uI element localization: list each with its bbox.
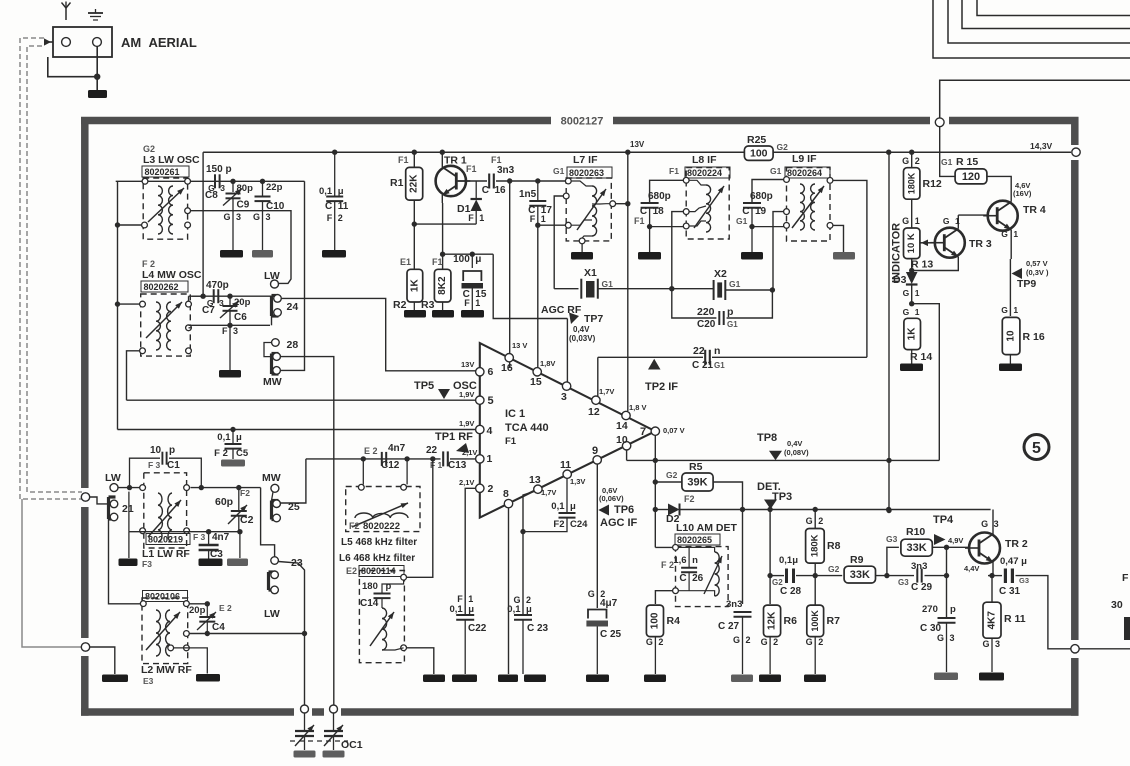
pin L5 right	[401, 484, 407, 490]
capacitor C24 0.1u	[523, 513, 576, 532]
ground bar below aerial	[88, 90, 107, 98]
capacitor C12 4n7 series	[382, 452, 386, 466]
resistor R14 1K	[904, 318, 921, 349]
wire AGC RF drop to pin3	[566, 319, 568, 383]
svg-text:n: n	[692, 555, 698, 566]
label 8020222	[349, 521, 400, 532]
wire pin7 drop	[653, 435, 658, 547]
svg-text:680p: 680p	[750, 191, 773, 202]
label R15	[941, 156, 978, 168]
label G3 C9col	[223, 212, 241, 222]
switch 21 contact b	[110, 513, 118, 521]
svg-text:TR 4: TR 4	[1023, 204, 1046, 216]
pin L3 mid-right	[185, 208, 191, 214]
svg-text:1: 1	[915, 288, 920, 298]
border feedthrough pin top	[935, 118, 944, 127]
wire R8 top	[814, 510, 816, 529]
capacitor C18	[641, 203, 659, 208]
switch MW bracket	[272, 354, 279, 375]
wire L8 mid drop	[672, 212, 684, 289]
border frame top	[81, 117, 1079, 125]
wire R16 gnd	[1009, 355, 1011, 364]
pin L6 bot-right	[401, 645, 407, 651]
svg-text:F: F	[530, 214, 536, 224]
svg-text:C14: C14	[360, 598, 379, 609]
svg-text:G3: G3	[898, 578, 909, 587]
svg-text:C 28: C 28	[780, 586, 802, 597]
svg-text:1: 1	[1013, 229, 1018, 239]
svg-text:C9: C9	[237, 200, 250, 211]
svg-text:R6: R6	[784, 615, 798, 627]
label C13	[426, 445, 467, 471]
svg-text:F2: F2	[553, 519, 564, 530]
testpoint TP4 triangle	[934, 534, 946, 545]
label 28	[287, 339, 299, 351]
svg-text:G1: G1	[729, 279, 741, 289]
label L2 MW RF	[141, 664, 192, 686]
svg-text:2,1V: 2,1V	[459, 478, 474, 487]
svg-text:E1: E1	[400, 257, 411, 267]
aerial terminal pin right	[93, 38, 102, 47]
terminal LW select	[271, 557, 279, 565]
capacitor C31 0.47u	[1005, 569, 1012, 584]
svg-text:2: 2	[818, 637, 823, 647]
svg-text:0,4V: 0,4V	[573, 325, 590, 334]
svg-text:TP8: TP8	[757, 432, 777, 444]
label C12	[364, 443, 406, 471]
svg-text:0,1μ: 0,1μ	[779, 555, 798, 566]
pin L10 bot-left	[673, 588, 679, 594]
wire L9 secondary bottom to ground	[833, 225, 844, 252]
pin L7 bottom	[579, 238, 585, 244]
label G1 L7	[553, 166, 565, 176]
svg-text:(16V): (16V)	[1013, 189, 1032, 198]
label C9	[237, 200, 250, 211]
switch 24 bracket	[272, 296, 279, 317]
ground bar R14	[900, 364, 923, 372]
svg-text:TR 2: TR 2	[1005, 538, 1028, 550]
resistor R6 12K	[764, 605, 781, 637]
svg-text:F 3: F 3	[148, 460, 161, 470]
label 20p	[234, 297, 251, 308]
capacitor C25 4u7 electrolytic	[586, 610, 608, 675]
label C25	[600, 629, 622, 640]
pin L2 top-left	[140, 601, 146, 607]
pin 15	[530, 359, 555, 388]
13V supply rail	[203, 151, 1071, 153]
wire RF row	[306, 456, 476, 461]
switch MW contact a	[273, 353, 281, 361]
svg-text:2: 2	[338, 213, 343, 223]
svg-text:1K: 1K	[409, 278, 420, 292]
ground bar R16	[999, 364, 1022, 372]
label TP4	[933, 514, 963, 545]
svg-text:C2: C2	[240, 514, 254, 526]
pin L5 left	[358, 484, 364, 490]
wire LW to L1	[118, 485, 140, 490]
label L7 IF	[573, 154, 598, 166]
svg-text:C8: C8	[205, 190, 218, 201]
svg-text:R4: R4	[667, 615, 681, 627]
junction rail L7 branch	[625, 150, 630, 155]
ground bar C3	[199, 559, 223, 567]
wire AGC RF path	[493, 254, 567, 318]
wire C17 bottom row to L7	[535, 223, 565, 228]
svg-text:G2: G2	[143, 144, 155, 154]
svg-text:16: 16	[495, 185, 507, 196]
wire LW band drop	[261, 488, 275, 557]
wire TR1 collector to rail	[442, 152, 443, 167]
svg-text:3: 3	[220, 183, 225, 193]
wire L9 secondary top	[833, 180, 867, 357]
label R14	[910, 351, 932, 363]
wire R3 gnd	[442, 302, 444, 310]
svg-text:30: 30	[1111, 599, 1123, 611]
svg-text:14,3V: 14,3V	[1030, 141, 1053, 151]
wire TR4 base row	[958, 214, 989, 216]
label 1n5	[519, 189, 537, 200]
wire C19 bottom	[749, 208, 754, 252]
ground bar C5	[221, 460, 245, 467]
svg-text:1: 1	[541, 214, 546, 224]
svg-text:G: G	[588, 589, 595, 599]
svg-text:D3: D3	[893, 274, 907, 286]
svg-text:F: F	[1122, 572, 1129, 584]
svg-text:13 V: 13 V	[512, 341, 527, 350]
svg-text:AGC IF: AGC IF	[600, 517, 638, 529]
capacitor C1 10p loop	[130, 452, 202, 488]
svg-text:F: F	[468, 213, 474, 223]
svg-text:C 25: C 25	[600, 629, 622, 640]
pin 13	[529, 474, 556, 497]
capacitor C28 0.1u series	[776, 568, 794, 583]
terminal LW RF	[110, 484, 118, 492]
svg-text:4: 4	[487, 425, 493, 437]
label C17	[528, 205, 552, 224]
svg-text:12K: 12K	[767, 611, 778, 630]
coil L6 block	[359, 571, 404, 663]
cable shield continuation	[22, 499, 82, 647]
resistor R7 100K	[807, 605, 824, 637]
svg-text:C24: C24	[570, 519, 588, 530]
wire TR3 emitter	[912, 257, 959, 271]
label X1	[584, 267, 597, 279]
svg-text:1,9V: 1,9V	[459, 419, 474, 428]
wire entry to switch21	[90, 497, 111, 504]
svg-text:8020262: 8020262	[144, 282, 179, 292]
svg-text:13V: 13V	[461, 360, 474, 369]
label L5 filter	[341, 537, 417, 548]
svg-text:G: G	[902, 156, 909, 166]
wire R9 right	[876, 573, 915, 578]
label R16	[1023, 331, 1045, 343]
wire left column	[117, 181, 119, 429]
label C30	[920, 604, 956, 643]
svg-text:TP9: TP9	[1017, 278, 1036, 290]
wire R11 gnd	[991, 638, 993, 672]
svg-text:L3 LW OSC: L3 LW OSC	[143, 154, 200, 166]
wire C19 top	[752, 180, 784, 203]
ground bar C11	[322, 250, 346, 258]
resistor R5 39K	[682, 473, 713, 491]
label G2 R12	[902, 156, 920, 166]
label R5	[689, 461, 703, 473]
wire R14 gnd	[911, 350, 913, 364]
svg-text:8020222: 8020222	[363, 521, 400, 532]
switch 23 contact b	[271, 586, 279, 594]
resistor R1 22K	[406, 167, 423, 200]
transistor TR3	[930, 228, 965, 258]
wire L1 out row	[191, 485, 261, 490]
resistor R12 180K	[904, 168, 920, 200]
label D1	[457, 203, 471, 215]
svg-text:G: G	[903, 307, 910, 317]
svg-text:OSC: OSC	[453, 380, 477, 392]
label C19	[736, 206, 767, 226]
svg-text:1: 1	[475, 298, 480, 308]
label TR 3	[969, 238, 992, 250]
label G2 C25	[588, 589, 618, 609]
pin L2 bot-b	[184, 645, 190, 651]
svg-text:μ: μ	[468, 604, 474, 615]
svg-text:G1: G1	[941, 157, 953, 167]
svg-text:F 3: F 3	[193, 532, 206, 542]
pin L4 top-left	[140, 301, 146, 307]
svg-text:5: 5	[488, 395, 494, 407]
wire L10 top to D2 node	[655, 546, 672, 548]
pin L9 mid-left	[784, 209, 790, 215]
label 80p	[237, 183, 254, 194]
svg-text:C5: C5	[236, 448, 249, 459]
svg-text:G1: G1	[770, 166, 782, 176]
pin L9 bot-right	[827, 223, 833, 229]
label C4	[189, 603, 232, 633]
svg-text:F1: F1	[505, 436, 517, 447]
border exit pin right	[1071, 645, 1079, 653]
svg-text:11: 11	[560, 459, 571, 471]
svg-text:G3: G3	[886, 534, 898, 544]
ground bar OC1a	[294, 751, 316, 758]
svg-text:C1: C1	[167, 460, 180, 471]
coil L7 block	[566, 178, 611, 241]
svg-text:1K: 1K	[907, 327, 918, 341]
label C5	[214, 432, 249, 459]
svg-text:220: 220	[697, 306, 715, 318]
label L10 AM DET	[676, 522, 737, 534]
capacitor C29 3n3 series	[914, 569, 947, 583]
label 8020264	[785, 167, 830, 178]
svg-text:μ: μ	[570, 501, 576, 512]
svg-text:21: 21	[122, 503, 134, 515]
label 22p	[266, 182, 283, 193]
svg-text:2: 2	[488, 483, 494, 495]
wire R11 branch	[991, 576, 993, 602]
label 220p C20	[697, 306, 738, 330]
wire osc top row	[116, 180, 305, 182]
capacitor C7 series 470p	[214, 289, 219, 303]
svg-text:TP2 IF: TP2 IF	[645, 381, 678, 393]
wire pin5 to L4	[127, 351, 140, 400]
wire pin10 drop	[626, 450, 628, 460]
pin L6 top-right	[401, 574, 407, 580]
svg-text:100: 100	[649, 612, 660, 629]
svg-text:G3: G3	[1019, 576, 1029, 585]
label 8020263	[567, 167, 612, 178]
svg-text:2: 2	[658, 637, 663, 647]
svg-text:LW: LW	[264, 270, 280, 282]
resistor R13 10K	[904, 228, 920, 259]
svg-text:8020263: 8020263	[569, 168, 604, 178]
svg-text:R 13: R 13	[911, 259, 933, 271]
svg-text:R7: R7	[827, 615, 841, 627]
capacitor C17 1n5	[529, 181, 546, 225]
wire switch24 bottom stub	[271, 316, 273, 325]
pin L1 bot-left	[140, 528, 146, 534]
ground bar C15	[461, 310, 484, 318]
svg-text:R5: R5	[689, 461, 703, 473]
svg-text:G1: G1	[602, 279, 614, 289]
label R12	[923, 178, 942, 190]
coil L4 block	[141, 294, 191, 356]
wire pin9 column	[596, 464, 598, 608]
svg-text:0,1: 0,1	[507, 604, 521, 615]
svg-text:L7 IF: L7 IF	[573, 154, 598, 166]
wire R13 to TR3 base arrow	[920, 240, 934, 247]
svg-text:24: 24	[287, 301, 299, 313]
svg-text:F 2: F 2	[142, 259, 155, 269]
svg-text:TP4: TP4	[933, 514, 954, 526]
ground bar L1	[119, 559, 138, 567]
svg-text:R25: R25	[747, 134, 766, 146]
label F2 L4	[142, 259, 155, 269]
svg-text:3: 3	[236, 212, 241, 222]
label C18	[634, 206, 664, 226]
svg-text:F1: F1	[432, 257, 443, 267]
svg-text:L6 468 kHz filter: L6 468 kHz filter	[339, 553, 415, 564]
label R10	[906, 526, 925, 538]
svg-text:G2: G2	[777, 142, 789, 152]
label F1 D1	[468, 213, 484, 223]
wire L4 top-left to left column	[115, 301, 140, 306]
ground bar C19	[741, 252, 763, 260]
svg-text:180K: 180K	[907, 172, 917, 194]
svg-text:R12: R12	[923, 178, 942, 190]
svg-text:4,4V: 4,4V	[964, 564, 979, 573]
wire R2 gnd	[413, 302, 415, 310]
label C10	[266, 201, 285, 212]
svg-text:100: 100	[453, 254, 470, 265]
junction rail R1	[412, 150, 417, 155]
pin 16	[501, 341, 527, 374]
svg-text:3n3: 3n3	[911, 561, 927, 572]
label X2	[714, 268, 727, 280]
ground bar C10	[252, 250, 273, 258]
wire pin4 rail	[118, 429, 476, 431]
svg-text:C 29: C 29	[911, 582, 933, 593]
wire TR1 base row	[458, 180, 487, 182]
svg-text:TCA 440: TCA 440	[505, 422, 549, 434]
coil L5 block	[346, 487, 420, 532]
svg-text:8020219: 8020219	[148, 535, 183, 545]
label G3 R10	[886, 534, 898, 544]
label 8002127 board number	[561, 116, 604, 128]
wire pin8 drop	[508, 508, 510, 674]
external component stub	[1124, 617, 1130, 640]
svg-text:0,1: 0,1	[551, 501, 565, 512]
svg-text:3: 3	[950, 633, 955, 643]
svg-text:0,1: 0,1	[217, 432, 231, 443]
label L4 MW OSC	[142, 269, 202, 281]
svg-text:L5 468 kHz filter: L5 468 kHz filter	[341, 537, 417, 548]
wire L6 bottom to ground	[407, 648, 434, 674]
wire L4 mid row	[189, 323, 271, 328]
svg-text:10: 10	[150, 445, 162, 456]
label R1	[390, 177, 404, 189]
ground bar L2	[196, 674, 220, 682]
wire C12 left drop	[362, 459, 364, 485]
svg-text:C 21: C 21	[692, 360, 714, 371]
svg-text:0,4V: 0,4V	[787, 439, 802, 448]
svg-text:p: p	[950, 604, 956, 615]
pin L4 bot-right	[186, 348, 192, 354]
wire TR3 collector up	[957, 215, 959, 229]
svg-text:1,8 V: 1,8 V	[629, 403, 647, 412]
label F1 C22	[457, 594, 473, 604]
svg-text:1,6: 1,6	[673, 555, 686, 566]
pin 8	[503, 488, 513, 508]
svg-text:4n7: 4n7	[388, 443, 406, 454]
svg-text:L2 MW RF: L2 MW RF	[141, 664, 192, 676]
svg-text:G2: G2	[772, 578, 783, 587]
wire aerial right terminal down	[96, 47, 98, 91]
svg-text:10: 10	[616, 434, 628, 446]
capacitor C11 0.1u	[326, 152, 343, 250]
crystal filter X1	[581, 279, 598, 299]
label C27	[718, 599, 751, 645]
label 8020261	[142, 166, 189, 177]
pin 12	[588, 387, 614, 418]
svg-text:G: G	[903, 288, 910, 298]
wire to tuning column	[278, 562, 304, 706]
screened cable conductor 1	[20, 38, 82, 499]
svg-text:X2: X2	[714, 268, 727, 280]
diode D1	[471, 181, 482, 224]
label 8020219	[146, 534, 190, 545]
label E1	[400, 257, 411, 267]
wire emitter row C31	[988, 575, 1002, 577]
svg-text:8020106: 8020106	[145, 592, 180, 602]
svg-text:8: 8	[503, 488, 509, 500]
wire MW top to tuning cap column	[280, 357, 333, 705]
svg-text:3: 3	[995, 639, 1000, 649]
svg-text:E2: E2	[346, 566, 357, 576]
svg-text:18: 18	[653, 206, 665, 217]
label 4,4V	[964, 564, 979, 573]
switch 25 contact b	[273, 514, 281, 522]
label TP2 IF	[645, 381, 678, 393]
pin L1 top-right	[184, 485, 190, 491]
label TP1 RF	[435, 431, 477, 457]
label R13	[911, 259, 933, 271]
wire L2 top row right	[189, 601, 210, 606]
wire C19 to L9 bot	[752, 226, 784, 228]
ground bar C6	[219, 370, 241, 378]
label R25	[747, 134, 766, 146]
switch 25 bracket	[272, 501, 279, 520]
label 8020114	[346, 566, 404, 577]
ground bar pin8	[498, 675, 518, 683]
label C2	[215, 488, 254, 526]
